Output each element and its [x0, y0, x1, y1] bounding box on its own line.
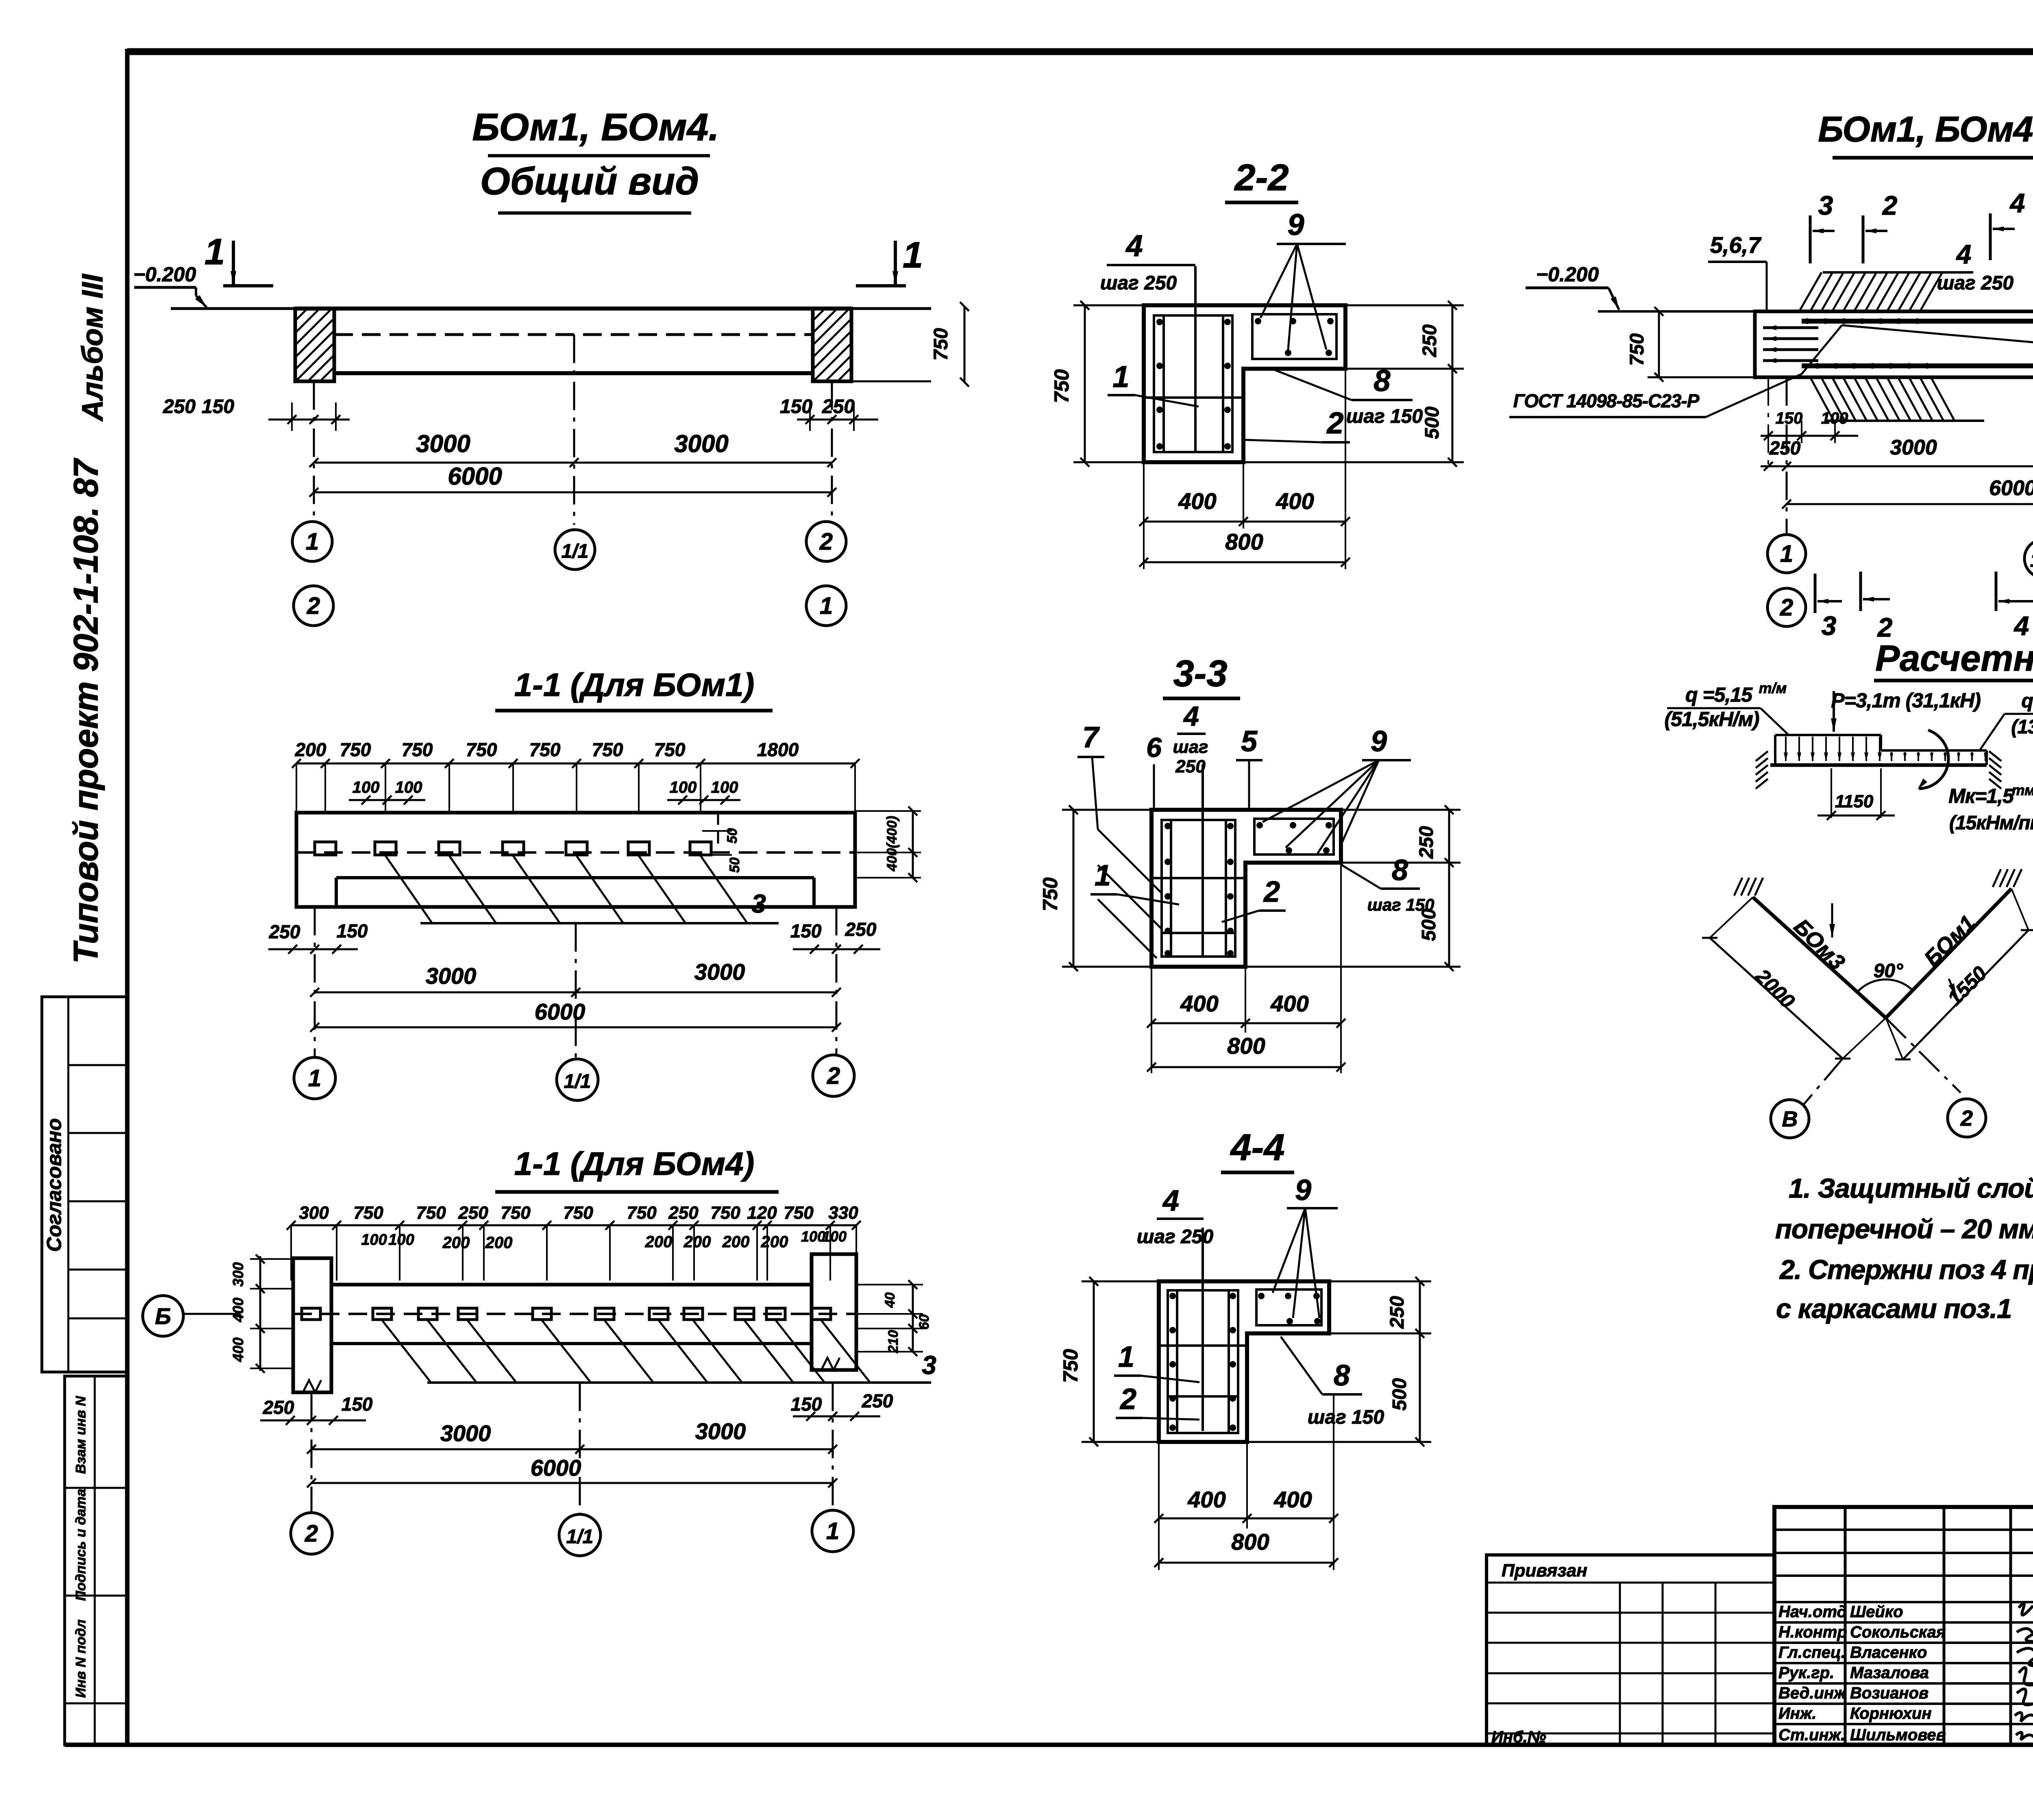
svg-text:750: 750	[627, 1203, 657, 1223]
svg-text:2. Стержни поз 4 приварить в к: 2. Стержни поз 4 приварить в каждом пере…	[1779, 1255, 2033, 1285]
svg-text:3: 3	[1818, 190, 1833, 220]
svg-text:2: 2	[1326, 406, 1343, 440]
svg-text:(13,2кН/м): (13,2кН/м)	[2011, 716, 2033, 738]
svg-text:150: 150	[790, 920, 822, 942]
svg-text:4: 4	[2009, 188, 2025, 218]
svg-text:Типовой проект 902-1-108. 87: Типовой проект 902-1-108. 87	[67, 458, 105, 963]
svg-text:400: 400	[1276, 488, 1314, 514]
svg-text:шаг 250: шаг 250	[1137, 1226, 1214, 1248]
svg-text:300: 300	[230, 1262, 246, 1287]
svg-text:400: 400	[1273, 1487, 1312, 1512]
svg-text:4: 4	[1956, 239, 1972, 269]
svg-text:3: 3	[1822, 611, 1837, 641]
svg-text:40: 40	[882, 1292, 898, 1308]
svg-text:шаг: шаг	[1173, 737, 1208, 757]
svg-text:Мазалова: Мазалова	[1850, 1664, 1929, 1682]
svg-text:Власенко: Власенко	[1850, 1644, 1927, 1661]
svg-text:(51,5кН/м): (51,5кН/м)	[1665, 708, 1759, 731]
svg-text:400: 400	[1187, 1487, 1225, 1512]
svg-text:8: 8	[1334, 1359, 1350, 1392]
svg-text:3: 3	[751, 889, 766, 918]
svg-text:3000: 3000	[440, 1420, 491, 1446]
svg-text:Альбом III: Альбом III	[76, 273, 109, 422]
svg-text:(15кНм/пм): (15кНм/пм)	[1949, 812, 2033, 834]
svg-text:750: 750	[501, 1203, 531, 1223]
svg-text:100: 100	[670, 778, 697, 796]
svg-text:2: 2	[1263, 876, 1280, 908]
svg-text:9: 9	[1295, 1174, 1311, 1207]
svg-text:9: 9	[1287, 208, 1304, 241]
svg-text:с каркасами поз.1: с каркасами поз.1	[1776, 1294, 2011, 1324]
svg-text:q =1,32: q =1,32	[2021, 690, 2033, 712]
svg-text:800: 800	[1231, 1529, 1269, 1555]
svg-text:6000: 6000	[448, 463, 502, 490]
svg-text:1: 1	[1118, 1341, 1134, 1373]
svg-text:1-1 (Для БОм4): 1-1 (Для БОм4)	[514, 1146, 754, 1182]
svg-text:750: 750	[592, 739, 623, 760]
svg-text:750: 750	[563, 1203, 593, 1223]
svg-text:8: 8	[1392, 854, 1408, 887]
svg-text:6: 6	[1146, 732, 1162, 763]
svg-text:3000: 3000	[426, 963, 477, 989]
svg-text:Общий вид: Общий вид	[480, 160, 699, 203]
svg-text:300: 300	[299, 1203, 329, 1223]
svg-text:Мк=1,5: Мк=1,5	[1948, 785, 2014, 807]
svg-text:90°: 90°	[1874, 960, 1903, 982]
svg-text:750: 750	[466, 739, 497, 760]
svg-text:750: 750	[654, 739, 686, 760]
svg-text:Согласовано: Согласовано	[43, 1118, 65, 1252]
svg-text:50: 50	[727, 857, 742, 873]
svg-text:В: В	[1782, 1107, 1798, 1131]
svg-text:750: 750	[784, 1203, 814, 1223]
svg-text:200: 200	[295, 739, 326, 760]
svg-text:500: 500	[1389, 1378, 1410, 1411]
svg-text:4: 4	[1183, 701, 1199, 732]
svg-text:150: 150	[1776, 409, 1803, 427]
svg-text:5,6,7: 5,6,7	[1710, 232, 1762, 258]
svg-text:750: 750	[1039, 877, 1062, 911]
svg-text:400: 400	[230, 1298, 246, 1322]
svg-text:3000: 3000	[694, 959, 745, 985]
svg-text:7: 7	[1082, 721, 1100, 754]
svg-text:400: 400	[230, 1337, 246, 1362]
svg-text:Инв N подл: Инв N подл	[73, 1620, 89, 1698]
svg-text:750: 750	[529, 739, 561, 760]
svg-text:250: 250	[862, 1390, 893, 1411]
svg-text:3: 3	[922, 1350, 936, 1380]
svg-text:250: 250	[263, 1397, 294, 1418]
svg-text:100: 100	[353, 778, 380, 796]
svg-text:Вед.инж: Вед.инж	[1778, 1684, 1847, 1702]
svg-text:шаг 250: шаг 250	[1100, 272, 1177, 294]
svg-text:100: 100	[361, 1231, 387, 1248]
svg-text:3000: 3000	[695, 1418, 746, 1444]
svg-text:6000: 6000	[535, 999, 586, 1024]
svg-text:250: 250	[845, 919, 877, 940]
svg-text:1: 1	[1095, 859, 1111, 892]
svg-text:1800: 1800	[757, 739, 799, 760]
svg-text:БОм1, БОм4. Схема армирования: БОм1, БОм4. Схема армирования	[1818, 109, 2033, 149]
svg-text:Инж.: Инж.	[1778, 1705, 1817, 1722]
svg-text:т/м: т/м	[1759, 680, 1787, 696]
svg-text:100: 100	[395, 778, 422, 796]
svg-text:150: 150	[202, 396, 234, 417]
svg-text:4-4: 4-4	[1230, 1127, 1285, 1168]
svg-text:3000: 3000	[1890, 436, 1937, 459]
svg-text:1: 1	[1780, 541, 1793, 567]
svg-text:Расчетные схемы: Расчетные схемы	[1875, 638, 2033, 679]
svg-text:200: 200	[761, 1233, 788, 1251]
svg-text:200: 200	[645, 1233, 673, 1251]
svg-text:250: 250	[269, 921, 300, 942]
svg-text:1: 1	[205, 232, 225, 272]
svg-text:4: 4	[1162, 1185, 1179, 1217]
svg-text:750: 750	[416, 1203, 446, 1223]
svg-text:400: 400	[1178, 488, 1216, 514]
svg-text:Нач.отд: Нач.отд	[1778, 1603, 1847, 1621]
svg-text:800: 800	[1225, 529, 1263, 554]
svg-text:Гл.спец.: Гл.спец.	[1778, 1644, 1846, 1661]
svg-text:5: 5	[1241, 725, 1258, 758]
svg-text:Сокольская: Сокольская	[1850, 1623, 1946, 1641]
svg-text:2: 2	[819, 528, 833, 555]
svg-text:60: 60	[916, 1314, 932, 1330]
svg-text:250: 250	[458, 1203, 488, 1223]
svg-text:250: 250	[1175, 757, 1206, 776]
svg-text:6000: 6000	[1989, 476, 2033, 500]
svg-text:200: 200	[722, 1233, 750, 1251]
svg-text:Возианов: Возианов	[1850, 1684, 1929, 1702]
svg-text:400: 400	[1270, 991, 1308, 1016]
svg-text:2: 2	[1780, 594, 1793, 621]
svg-text:200: 200	[485, 1234, 513, 1252]
svg-text:400: 400	[1180, 991, 1218, 1016]
svg-text:4: 4	[2013, 611, 2029, 641]
svg-text:1: 1	[1112, 360, 1129, 394]
svg-text:БОм1, БОм4.: БОм1, БОм4.	[472, 106, 719, 149]
svg-text:100: 100	[711, 778, 738, 796]
svg-text:P=3,1т (31,1кН): P=3,1т (31,1кН)	[1831, 689, 1981, 712]
svg-text:2: 2	[1882, 190, 1898, 220]
svg-text:150: 150	[780, 396, 812, 417]
svg-text:750: 750	[930, 328, 952, 361]
svg-text:2: 2	[827, 1063, 840, 1089]
svg-text:1: 1	[826, 1518, 839, 1544]
svg-text:3000: 3000	[416, 430, 470, 457]
svg-text:тм/пм: тм/пм	[2012, 782, 2033, 798]
svg-text:500: 500	[1421, 407, 1443, 439]
svg-text:поперечной – 20 мм, продольной: поперечной – 20 мм, продольной – 30 мм.	[1775, 1214, 2033, 1244]
svg-text:250: 250	[822, 396, 855, 417]
svg-text:120: 120	[747, 1203, 777, 1223]
svg-text:100: 100	[388, 1231, 414, 1248]
svg-text:750: 750	[1050, 369, 1073, 403]
svg-text:750: 750	[1059, 1349, 1082, 1383]
svg-text:q =5,15: q =5,15	[1685, 683, 1753, 706]
svg-text:Шейко: Шейко	[1850, 1603, 1903, 1621]
svg-text:250: 250	[668, 1203, 699, 1223]
svg-text:2: 2	[305, 1520, 318, 1547]
svg-text:250: 250	[1387, 1296, 1408, 1329]
svg-text:Подпись и дата: Подпись и дата	[73, 1489, 89, 1601]
svg-text:Инб.№: Инб.№	[1491, 1728, 1546, 1746]
svg-text:750: 750	[402, 739, 433, 760]
svg-text:9: 9	[1371, 725, 1387, 758]
svg-text:1/1: 1/1	[566, 1526, 594, 1548]
svg-text:330: 330	[828, 1203, 858, 1223]
svg-text:250: 250	[163, 396, 196, 417]
svg-text:Шильмовев: Шильмовев	[1850, 1726, 1946, 1744]
svg-text:3-3: 3-3	[1173, 653, 1228, 694]
svg-text:Привязан: Привязан	[1502, 1561, 1587, 1581]
svg-text:1-1 (Для БОм1): 1-1 (Для БОм1)	[514, 667, 754, 703]
svg-text:ГОСТ 14098-85-С23-Р: ГОСТ 14098-85-С23-Р	[1513, 390, 1700, 411]
svg-text:1. Защитный слой бетона для ра: 1. Защитный слой бетона для рабочей арма…	[1789, 1173, 2033, 1204]
svg-text:1/1: 1/1	[562, 541, 589, 562]
svg-text:шаг 250: шаг 250	[1937, 272, 2014, 294]
svg-text:Б: Б	[155, 1303, 171, 1329]
svg-text:750: 750	[1626, 333, 1648, 366]
svg-text:1: 1	[308, 1065, 321, 1092]
svg-text:150: 150	[337, 920, 368, 942]
svg-text:−0.200: −0.200	[1536, 263, 1599, 286]
svg-text:шаг 150: шаг 150	[1367, 895, 1434, 914]
svg-text:2: 2	[1960, 1106, 1973, 1131]
svg-text:250: 250	[1419, 324, 1441, 357]
svg-text:2-2: 2-2	[1234, 157, 1289, 198]
svg-text:шаг 150: шаг 150	[1346, 406, 1423, 427]
svg-text:3000: 3000	[674, 430, 728, 457]
svg-text:1: 1	[903, 235, 923, 276]
svg-text:150: 150	[791, 1394, 822, 1415]
svg-text:2: 2	[1877, 612, 1893, 642]
svg-text:250: 250	[1416, 826, 1437, 859]
svg-text:шаг 150: шаг 150	[1308, 1407, 1384, 1428]
svg-text:50: 50	[725, 828, 740, 844]
svg-text:Взам инв N: Взам инв N	[73, 1396, 89, 1474]
svg-text:1/1: 1/1	[2030, 550, 2033, 571]
svg-text:100: 100	[822, 1228, 847, 1245]
svg-text:150: 150	[342, 1394, 373, 1415]
svg-text:400(400): 400(400)	[884, 816, 900, 872]
svg-text:750: 750	[340, 739, 371, 760]
svg-text:750: 750	[710, 1203, 740, 1223]
svg-text:Ст.инж.: Ст.инж.	[1778, 1726, 1845, 1744]
svg-text:2: 2	[307, 593, 320, 619]
svg-text:1/1: 1/1	[564, 1071, 591, 1092]
svg-text:200: 200	[683, 1233, 711, 1251]
svg-text:Н.контр: Н.контр	[1778, 1623, 1847, 1641]
svg-text:1: 1	[820, 593, 833, 619]
svg-text:Рук.гр.: Рук.гр.	[1778, 1664, 1834, 1682]
svg-text:4: 4	[1125, 229, 1143, 263]
svg-text:−0.200: −0.200	[133, 263, 196, 286]
svg-text:210: 210	[886, 1330, 901, 1354]
svg-text:200: 200	[442, 1234, 470, 1252]
svg-text:800: 800	[1227, 1033, 1265, 1059]
svg-text:750: 750	[353, 1203, 383, 1223]
svg-text:2: 2	[1119, 1383, 1136, 1416]
svg-text:250: 250	[1769, 437, 1801, 459]
svg-text:1150: 1150	[1835, 791, 1874, 811]
svg-text:6000: 6000	[531, 1455, 581, 1481]
svg-text:1: 1	[306, 528, 319, 555]
svg-text:Корнюхин: Корнюхин	[1850, 1705, 1932, 1722]
